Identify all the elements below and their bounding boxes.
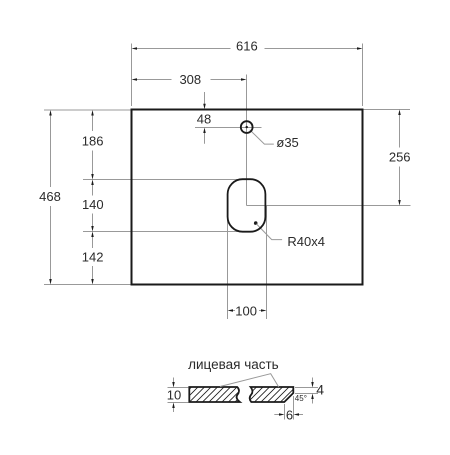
countertop outline	[132, 110, 363, 285]
extension line left at bottom edge	[44, 284, 131, 286]
dimension 186	[82, 110, 104, 180]
svg-text:6: 6	[286, 407, 293, 422]
label 45 degrees	[295, 394, 307, 403]
extension line left at top edge	[44, 109, 131, 111]
svg-text:308: 308	[179, 72, 201, 87]
crosshair horizontal through hole	[195, 127, 262, 129]
dimension 10	[167, 378, 189, 413]
dimension 142	[82, 232, 104, 285]
svg-text:45°: 45°	[295, 394, 307, 403]
dimension 100	[228, 304, 267, 319]
sink cutout R40x4	[228, 179, 266, 232]
center line horizontal from cutout center	[247, 205, 411, 207]
extension line right at top edge	[363, 109, 411, 111]
dimension 48	[197, 92, 211, 144]
dimension 6	[274, 396, 303, 422]
section right piece with chamfer	[250, 387, 294, 402]
extension line for 100 left	[227, 206, 229, 319]
svg-text:186: 186	[82, 134, 104, 149]
dimension 140	[82, 180, 104, 232]
svg-text:10: 10	[167, 388, 181, 403]
svg-text:100: 100	[235, 304, 257, 319]
extension line at cutout bottom	[83, 231, 243, 233]
extension line at cutout top	[83, 179, 243, 181]
svg-text:ø35: ø35	[276, 135, 298, 150]
svg-text:256: 256	[389, 149, 411, 164]
dimension 468	[39, 110, 61, 285]
label лицевая часть with leaders	[188, 357, 279, 387]
svg-text:R40x4: R40x4	[287, 234, 325, 249]
section left piece	[189, 387, 240, 402]
svg-text:142: 142	[82, 250, 104, 265]
svg-text:468: 468	[39, 189, 61, 204]
svg-text:140: 140	[82, 197, 104, 212]
svg-text:лицевая часть: лицевая часть	[188, 357, 279, 372]
dimension 616	[132, 39, 363, 54]
center line vertical through hole	[246, 75, 248, 206]
dimension 308	[132, 72, 247, 87]
svg-text:48: 48	[197, 111, 211, 126]
extension line for 100 right	[266, 206, 268, 319]
leader R40x4	[254, 221, 325, 249]
dimension 256	[389, 110, 411, 206]
extension line top-right vertical	[362, 44, 364, 107]
dimension 4	[295, 378, 324, 404]
leader ø35	[250, 130, 299, 150]
extension line top-left vertical	[131, 44, 133, 107]
svg-text:616: 616	[236, 39, 258, 54]
faucet hole ø35	[241, 121, 253, 133]
svg-text:4: 4	[316, 382, 324, 398]
